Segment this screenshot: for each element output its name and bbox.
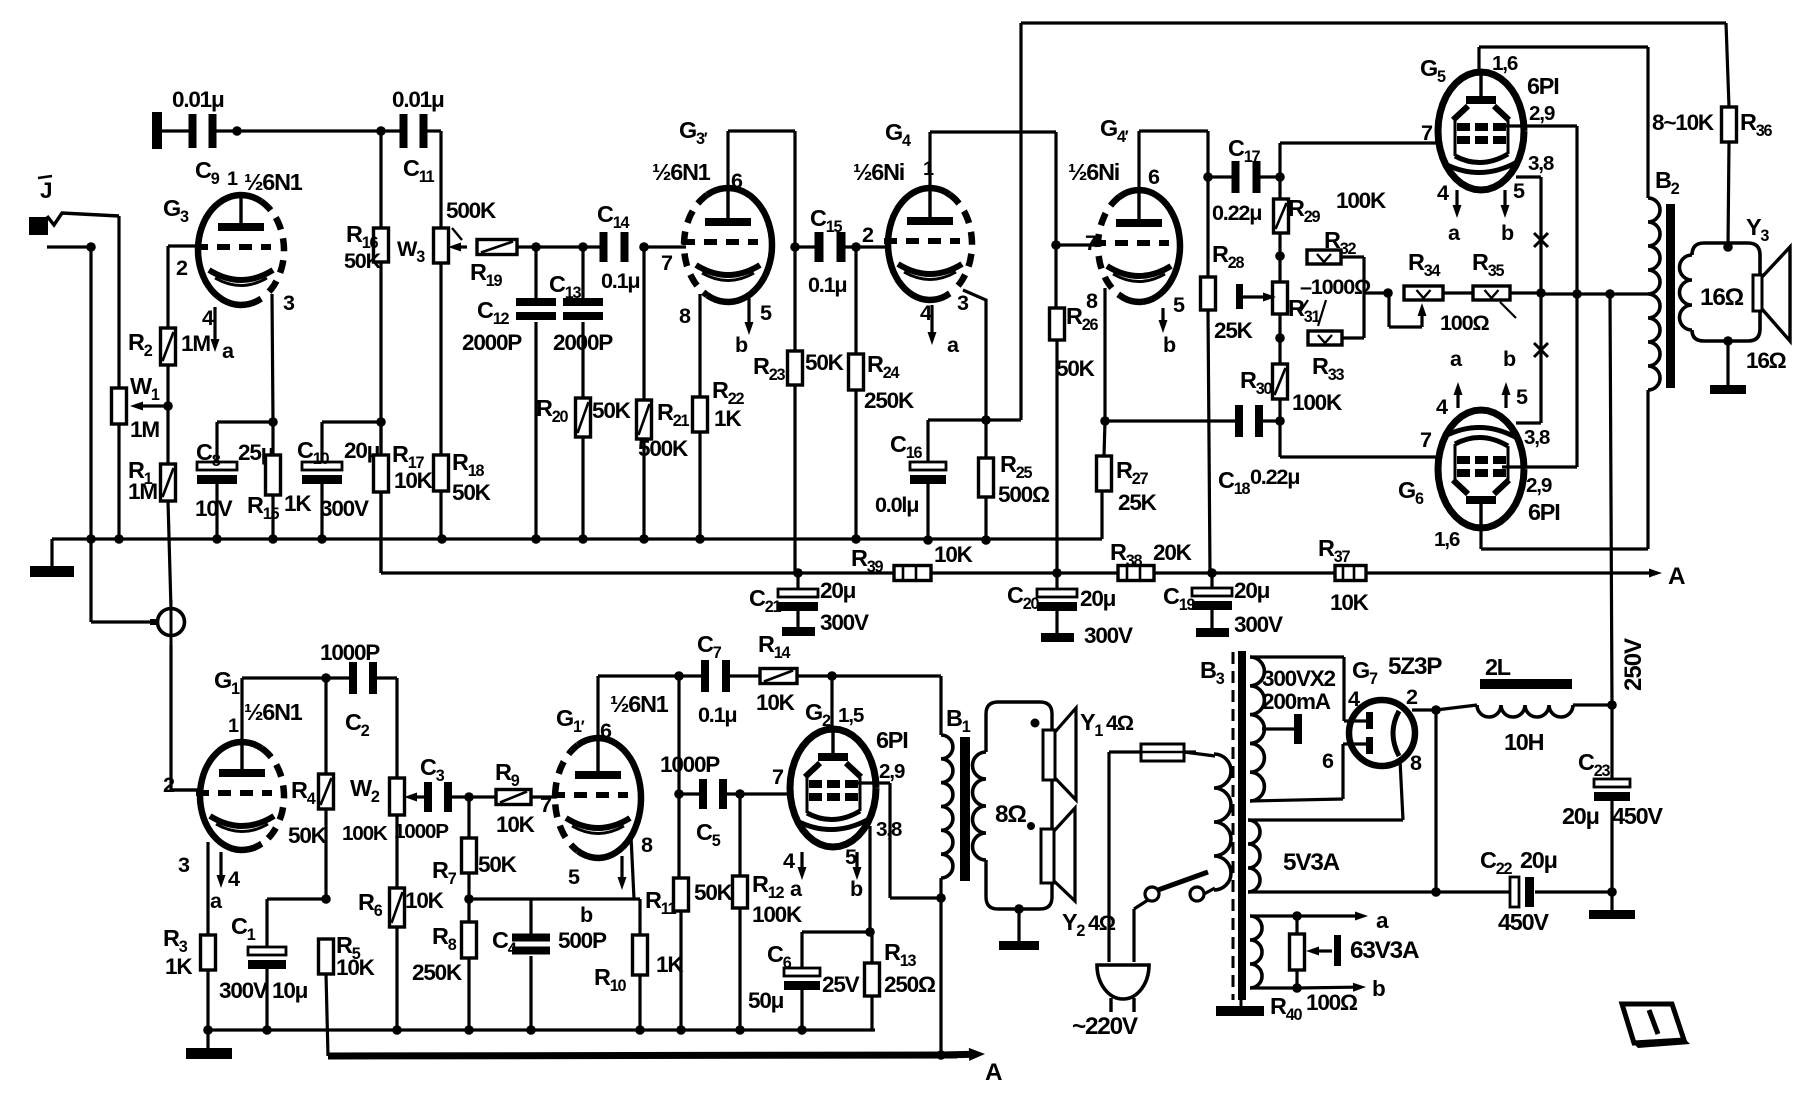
svg-text:½6Ni: ½6Ni xyxy=(1068,159,1119,185)
node R10 ground xyxy=(635,1025,645,1035)
potentiometer R35 100ohm xyxy=(1473,286,1510,300)
capacitor C15 0.1u xyxy=(795,245,818,248)
svg-text:4Ω: 4Ω xyxy=(1088,910,1116,935)
node C10 tap on R17 column xyxy=(376,417,386,427)
capacitor C20 20u 300V xyxy=(1055,573,1058,589)
svg-text:20K: 20K xyxy=(1153,540,1193,565)
transformer B2 primary xyxy=(1646,47,1649,198)
svg-text:2: 2 xyxy=(163,772,175,797)
resistor R11 50K xyxy=(674,878,689,911)
wire G5 pin 3,8 xyxy=(1516,175,1541,178)
HV center tap bar xyxy=(1262,727,1294,730)
svg-text:0.22μ: 0.22μ xyxy=(1250,464,1299,489)
node C12 ground xyxy=(531,534,541,544)
svg-text:0.01μ: 0.01μ xyxy=(392,87,444,112)
svg-text:4: 4 xyxy=(228,866,240,891)
node B1 on A bus xyxy=(936,1050,946,1060)
svg-text:500Ω: 500Ω xyxy=(998,482,1050,507)
svg-text:100Ω: 100Ω xyxy=(1440,310,1489,335)
capacitor C18 0.22u xyxy=(1235,405,1243,437)
transformer B1 primary xyxy=(939,676,942,735)
resistor R10 1K xyxy=(638,899,641,935)
svg-text:50K: 50K xyxy=(805,350,845,375)
capacitor C21 20u 300V xyxy=(796,573,799,589)
capacitor C14 0.1u xyxy=(600,232,608,262)
node R6 ground xyxy=(392,1025,402,1035)
svg-text:0.01μ: 0.01μ xyxy=(172,87,224,112)
wire 6.3V top / heater a xyxy=(1250,914,1297,917)
node R12 ground xyxy=(735,1025,745,1035)
tube G1' (1/2 6N1) xyxy=(578,738,641,858)
svg-text:10K: 10K xyxy=(934,542,974,567)
wire G1 anode xyxy=(240,678,243,742)
svg-text:3: 3 xyxy=(283,290,295,315)
node R23 on B+ bus xyxy=(793,568,803,578)
svg-text:b: b xyxy=(1372,976,1385,1001)
node R21 ground xyxy=(639,534,649,544)
node C6 ground xyxy=(797,1025,807,1035)
node jack sleeve xyxy=(86,242,96,252)
G2 heater leads xyxy=(800,852,803,867)
svg-text:250V: 250V xyxy=(1620,638,1647,691)
node choke output xyxy=(1607,700,1617,710)
node G4 cathode xyxy=(981,415,991,425)
svg-text:½6N1: ½6N1 xyxy=(610,691,669,717)
node R20 ground xyxy=(578,534,588,544)
svg-text:3: 3 xyxy=(957,290,969,315)
capacitor C7 0.1u xyxy=(679,674,701,677)
wire R35 to screen rail xyxy=(1510,291,1541,294)
wire G3 grid column xyxy=(166,246,169,328)
node R21 tap xyxy=(639,242,649,252)
wire W1 wiper xyxy=(143,404,168,407)
wire jack sleeve xyxy=(47,245,91,248)
wire G6 pin 3,8 xyxy=(1516,421,1541,424)
tube G3' (1/2 6N1) xyxy=(707,188,772,302)
node C12 tap xyxy=(531,242,541,252)
node R12 tap xyxy=(735,789,745,799)
svg-text:1K: 1K xyxy=(714,406,742,431)
svg-text:7: 7 xyxy=(772,764,784,789)
wire G4' grid xyxy=(1056,243,1100,246)
node C18 right xyxy=(1275,416,1285,426)
node W1 wiper junction xyxy=(163,401,173,411)
svg-text:3,8: 3,8 xyxy=(1528,152,1554,175)
mains plug ~220V xyxy=(1097,965,1149,999)
transformer B3 5V winding xyxy=(1248,820,1260,892)
resistor R23 50K xyxy=(788,351,803,385)
potentiometer R34 100ohm xyxy=(1404,286,1443,300)
wire 6.3V bottom / heater b xyxy=(1250,986,1297,989)
svg-text:5: 5 xyxy=(760,300,772,325)
wire down to G2 anode xyxy=(830,676,833,700)
transformer B2 secondary / speaker Y3 box xyxy=(1692,243,1760,341)
svg-text:450V: 450V xyxy=(1498,909,1549,935)
resistor R29 100K xyxy=(1274,199,1289,233)
capacitor C11 0.01u xyxy=(400,114,408,148)
svg-text:50K: 50K xyxy=(288,823,328,848)
node screen bus mid xyxy=(1572,289,1582,299)
svg-text:10K: 10K xyxy=(756,690,796,715)
node rectifier output xyxy=(1431,705,1441,715)
svg-text:6PI: 6PI xyxy=(1528,499,1560,525)
resistor R5 10K xyxy=(319,939,334,974)
wire R34-R35 xyxy=(1443,291,1473,294)
svg-text:16Ω: 16Ω xyxy=(1746,348,1787,373)
svg-text:10K: 10K xyxy=(394,468,434,493)
wire B+ bus A (upper channel) xyxy=(381,571,894,574)
svg-text:250Ω: 250Ω xyxy=(884,972,936,997)
resistor R9 10K (series) xyxy=(496,790,531,805)
transformer B1 core xyxy=(960,737,970,881)
wire R1 bottom to connector (crosses ground bus) xyxy=(168,501,171,609)
svg-text:4Ω: 4Ω xyxy=(1106,710,1134,735)
wire lower B+ bus A heavy xyxy=(328,1055,957,1056)
svg-text:450V: 450V xyxy=(1612,803,1663,829)
wire jack sleeve to ground bus xyxy=(89,247,92,539)
node G2 cathode xyxy=(865,927,875,937)
svg-text:½6N1: ½6N1 xyxy=(244,169,303,195)
wire Y3 to ground xyxy=(1726,341,1729,385)
svg-text:5: 5 xyxy=(1516,384,1528,409)
wire G4' anode to C17 xyxy=(1137,131,1140,190)
page mark xyxy=(1622,1004,1684,1043)
resistor R7 50K xyxy=(467,797,470,838)
svg-text:16Ω: 16Ω xyxy=(1700,284,1744,311)
wire G4' cathode to C18 xyxy=(1105,419,1243,422)
wire R32-R33 bridge right side xyxy=(1341,255,1364,258)
svg-text:100K: 100K xyxy=(1336,188,1387,213)
node R18 ground xyxy=(437,534,447,544)
wire to B1 primary top xyxy=(832,674,941,677)
svg-text:6: 6 xyxy=(731,168,743,193)
wire G1 grid xyxy=(171,788,200,791)
node R15 ground xyxy=(268,534,278,544)
node G3 anode junction xyxy=(232,126,242,136)
wire switch to plug xyxy=(1134,900,1148,909)
svg-text:6: 6 xyxy=(600,718,612,743)
svg-text:1M: 1M xyxy=(128,479,157,504)
wire top line C9-C11 xyxy=(162,129,192,132)
wire cathode feedback line xyxy=(469,897,640,900)
svg-text:0.22μ: 0.22μ xyxy=(1212,200,1261,225)
svg-text:300V: 300V xyxy=(320,496,369,521)
svg-text:1,5: 1,5 xyxy=(838,704,864,727)
wire B+ bus left end riser xyxy=(379,422,382,573)
wire C17 column xyxy=(1206,131,1209,277)
resistor R33 (pot) xyxy=(1308,331,1342,345)
resistor R1 1M xyxy=(166,406,169,464)
wire R30 to G6 grid corner xyxy=(1278,399,1281,457)
wire G3 grid xyxy=(168,244,198,247)
node R16 column junction xyxy=(376,126,386,136)
G6 heater leads xyxy=(1456,395,1459,408)
resistor R24 250K xyxy=(854,247,857,354)
svg-text:7: 7 xyxy=(1085,230,1097,255)
resistor R19 (series) xyxy=(477,240,517,255)
ground (lower channel) xyxy=(206,1030,209,1048)
wire fuse to B3 primary xyxy=(1184,750,1196,753)
speaker Y3 horn xyxy=(1753,275,1762,311)
svg-text:100K: 100K xyxy=(1292,390,1343,415)
R34 wiper hook xyxy=(1420,316,1423,327)
wire W2 to R6 xyxy=(395,815,398,888)
svg-text:5: 5 xyxy=(845,844,857,869)
svg-text:2: 2 xyxy=(176,255,188,280)
svg-text:7: 7 xyxy=(1421,120,1433,145)
resistor R2 1M xyxy=(161,328,176,365)
svg-text:10K: 10K xyxy=(336,955,376,980)
node R8 ground xyxy=(464,1025,474,1035)
wire G3 cathode lead xyxy=(272,294,273,422)
svg-text:b: b xyxy=(1501,220,1514,245)
resistor R17 10K xyxy=(379,262,382,455)
wire C8 branch xyxy=(217,420,273,423)
connector to lower channel xyxy=(158,609,185,636)
node W1 bottom on ground bus xyxy=(114,534,124,544)
svg-text:25V: 25V xyxy=(822,972,860,997)
svg-text:6PI: 6PI xyxy=(1527,73,1559,99)
svg-text:1000P: 1000P xyxy=(660,752,720,777)
wire G6 screen 2,9 xyxy=(1502,465,1577,468)
svg-text:a: a xyxy=(1376,908,1389,933)
wire G1 cathode to R3 xyxy=(206,842,209,935)
svg-text:2,9: 2,9 xyxy=(1529,102,1555,125)
svg-text:20μ: 20μ xyxy=(1234,578,1270,603)
B3 core ground xyxy=(1240,1000,1243,1006)
resistor R32 (pot) xyxy=(1307,250,1341,264)
tube G5 (6P1) xyxy=(1438,72,1524,190)
capacitor C4 500P xyxy=(529,899,532,934)
wire R5 to A bus (crosses ground bus) xyxy=(326,974,328,1056)
transformer B3 core xyxy=(1232,652,1235,1000)
node B1 primary bottom xyxy=(936,893,946,903)
wire ground bus (upper channel) xyxy=(52,537,1102,540)
svg-text:~220V: ~220V xyxy=(1072,1013,1139,1040)
wire C22 line xyxy=(1436,890,1510,893)
wire choke to B+ node xyxy=(1573,703,1612,706)
wire C3 to R9 xyxy=(450,795,496,798)
wire R14 to G2 anode node xyxy=(797,674,832,677)
node R28 on B+ bus xyxy=(1207,568,1217,578)
svg-text:8~10K: 8~10K xyxy=(1652,110,1715,135)
svg-text:8: 8 xyxy=(1086,288,1098,313)
svg-text:7: 7 xyxy=(540,792,552,817)
svg-text:63V3A: 63V3A xyxy=(1350,937,1419,964)
svg-text:8: 8 xyxy=(1410,750,1422,775)
capacitor C12 2000P xyxy=(534,247,537,298)
resistor R13 250ohm xyxy=(870,932,873,963)
node C17 right xyxy=(1275,172,1285,182)
node C22 right / ground xyxy=(1607,887,1617,897)
capacitor C1 10u 300V xyxy=(248,947,286,955)
capacitor C16 0.01u xyxy=(926,420,929,462)
potentiometer W1 1M xyxy=(112,388,127,424)
resistor R39 10K xyxy=(894,566,931,581)
wire connector down to G1 grid xyxy=(169,645,172,790)
wire G4 anode to R26 column xyxy=(928,132,931,188)
svg-text:4: 4 xyxy=(202,305,214,330)
svg-text:4: 4 xyxy=(783,848,795,873)
wire feedback rail right drop to R36 xyxy=(1726,23,1729,107)
wire C1 branch xyxy=(267,897,326,900)
node R31-R33 xyxy=(1275,333,1285,343)
node R7 bottom xyxy=(464,894,474,904)
node C1 ground xyxy=(262,1025,272,1035)
wire G5 grid line xyxy=(1280,141,1438,144)
R40 wiper xyxy=(1319,949,1332,952)
svg-text:5: 5 xyxy=(568,864,580,889)
wire screen center-tap rail xyxy=(1541,292,1648,295)
capacitor C19 20u 300V xyxy=(1210,573,1213,588)
G3 heater lead a xyxy=(213,307,216,339)
wire G1' cathode xyxy=(631,836,634,899)
svg-text:3,8: 3,8 xyxy=(1524,426,1550,449)
svg-text:100K: 100K xyxy=(342,822,388,845)
wire pin8 to 5V winding xyxy=(1400,760,1403,820)
svg-text:8Ω: 8Ω xyxy=(995,801,1026,828)
wire G2 pin 3,8 cathode xyxy=(862,824,870,827)
node C4 ground xyxy=(526,1025,536,1035)
svg-text:20μ: 20μ xyxy=(1562,803,1599,829)
wire G3' cathode to R22 xyxy=(698,294,701,397)
potentiometer W3 500K xyxy=(434,228,449,263)
node R29-R32 xyxy=(1275,251,1285,261)
wire lower ground bus xyxy=(208,1028,875,1031)
node R22 ground xyxy=(695,534,705,544)
svg-text:500P: 500P xyxy=(558,928,607,953)
resistor R14 10K (series) xyxy=(760,669,797,684)
svg-text:1M: 1M xyxy=(130,417,159,442)
capacitor C6 50u 25V xyxy=(784,968,820,976)
svg-text:100K: 100K xyxy=(752,902,803,927)
x mark upper xyxy=(1534,233,1548,247)
node Y3 bottom xyxy=(1723,336,1733,346)
svg-text:100Ω: 100Ω xyxy=(1306,990,1358,1015)
resistor R6 10K xyxy=(390,888,405,927)
svg-text:50K: 50K xyxy=(694,880,734,905)
svg-text:1K: 1K xyxy=(165,954,193,979)
node sleeve branch on ground bus xyxy=(86,534,96,544)
node C5 takeoff xyxy=(674,789,684,799)
svg-text:300V: 300V xyxy=(1234,612,1283,637)
node G4' grid tap xyxy=(1051,240,1061,250)
svg-text:2,9: 2,9 xyxy=(1526,474,1552,497)
svg-text:50K: 50K xyxy=(592,398,632,423)
svg-text:2: 2 xyxy=(862,222,874,247)
svg-text:200mA: 200mA xyxy=(1262,689,1331,714)
resistor R16 50K xyxy=(379,131,382,228)
wire C14 to G3' grid xyxy=(644,245,686,248)
wire C11 right to W3 column xyxy=(439,131,442,228)
svg-text:10μ: 10μ xyxy=(272,978,308,1003)
wire screen to B1 bottom xyxy=(890,896,941,899)
svg-text:4: 4 xyxy=(1437,180,1449,205)
svg-text:½6N1: ½6N1 xyxy=(652,159,711,185)
svg-text:b: b xyxy=(850,876,863,901)
wire ground-bus branch to connector xyxy=(89,539,92,622)
wire G1' anode xyxy=(596,676,599,738)
resistor R4 50K xyxy=(324,678,327,774)
node bridge mid to R34 xyxy=(1364,291,1388,294)
wire G4 cathode lead xyxy=(963,290,986,420)
potentiometer R31 xyxy=(1273,282,1288,314)
svg-text:20μ: 20μ xyxy=(1520,847,1557,873)
wire C10 branch xyxy=(322,420,381,423)
transformer B1 secondary xyxy=(973,752,986,860)
node center tap to B+ column xyxy=(1605,289,1615,299)
svg-text:250K: 250K xyxy=(864,388,915,413)
node R4 top xyxy=(321,673,331,683)
svg-text:4: 4 xyxy=(1436,394,1448,419)
node R11 ground xyxy=(676,1025,686,1035)
wire box bottom to ground xyxy=(1014,904,1024,914)
svg-text:7: 7 xyxy=(661,250,673,275)
svg-text:0.0lμ: 0.0lμ xyxy=(875,492,918,517)
resistor R15 1K xyxy=(271,422,274,455)
wire B+ column down to choke output xyxy=(1610,294,1612,705)
svg-text:A: A xyxy=(1668,563,1685,590)
svg-text:5V3A: 5V3A xyxy=(1283,849,1340,876)
svg-text:2,9: 2,9 xyxy=(879,760,905,783)
wire G5 screen 2,9 xyxy=(1502,124,1577,127)
svg-text:1: 1 xyxy=(227,168,238,190)
ground (upper-left) xyxy=(50,539,53,566)
svg-text:5: 5 xyxy=(1513,178,1525,203)
svg-text:5Z3P: 5Z3P xyxy=(1388,653,1442,680)
resistor R18 50K xyxy=(439,263,442,455)
transformer B3 primary xyxy=(1214,754,1231,890)
speaker Y1 xyxy=(1043,730,1055,780)
wire cathode node to feedback rail xyxy=(986,418,1021,421)
resistor R37 10K xyxy=(1335,566,1366,581)
G4' heater lead b xyxy=(1161,308,1164,320)
wire cathode network top xyxy=(802,930,870,933)
svg-text:–1000Ω: –1000Ω xyxy=(1300,274,1371,299)
wire G5 anode rail to B2 primary xyxy=(1479,45,1648,48)
svg-text:8: 8 xyxy=(679,303,691,328)
svg-text:300V: 300V xyxy=(1084,623,1133,648)
node A arrow (upper B+ bus end) xyxy=(1612,571,1649,574)
svg-text:20μ: 20μ xyxy=(1080,586,1116,611)
potentiometer W2 100K xyxy=(390,778,405,815)
wire R4 to C1 node xyxy=(324,809,327,899)
resistor R3 1K xyxy=(201,935,216,970)
resistor R25 500ohm xyxy=(984,420,987,458)
node R3 ground xyxy=(203,1025,213,1035)
wire G3' anode to R23 top xyxy=(726,131,729,188)
capacitor C17 0.22u xyxy=(1208,175,1234,178)
resistor R20 50K xyxy=(576,398,591,437)
svg-text:1000P: 1000P xyxy=(394,820,449,843)
svg-text:10K: 10K xyxy=(496,812,536,837)
svg-text:5: 5 xyxy=(1173,292,1185,317)
svg-text:50K: 50K xyxy=(344,248,382,273)
resistor R36 8~10K xyxy=(1722,107,1737,142)
svg-text:10V: 10V xyxy=(195,496,233,521)
wire R2 bottom to wiper node xyxy=(166,365,169,406)
svg-text:7: 7 xyxy=(1420,427,1432,452)
wire grid line to C14 xyxy=(517,245,602,248)
svg-text:b: b xyxy=(735,332,748,357)
svg-text:50K: 50K xyxy=(478,852,518,877)
wire HV bottom to plate 6 xyxy=(1250,799,1343,801)
wire G2 anode lead xyxy=(830,700,833,729)
svg-text:300V: 300V xyxy=(219,978,268,1003)
svg-text:500K: 500K xyxy=(638,436,689,461)
tube G2 (6P1) xyxy=(790,729,876,847)
wire R23 column xyxy=(793,131,796,351)
